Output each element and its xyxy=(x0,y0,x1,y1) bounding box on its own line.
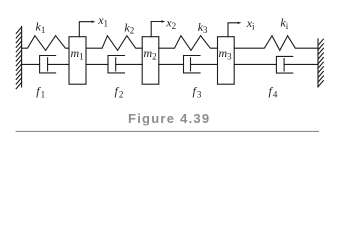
damper f3 xyxy=(159,56,218,73)
arrowhead xi xyxy=(238,22,242,24)
mass m3 xyxy=(218,37,235,84)
arrowhead x1 xyxy=(92,21,96,23)
damper f2 xyxy=(86,56,142,73)
left wall xyxy=(16,27,21,89)
svg-text:k1: k1 xyxy=(36,20,46,36)
svg-text:ki: ki xyxy=(280,16,288,32)
svg-text:k3: k3 xyxy=(198,20,208,35)
mass m2 xyxy=(142,37,159,84)
damper f1 xyxy=(22,56,69,73)
svg-text:f2: f2 xyxy=(115,84,124,100)
right wall xyxy=(318,39,323,87)
svg-text:x1: x1 xyxy=(97,13,108,29)
arrowhead x2 xyxy=(161,20,165,22)
svg-text:f4: f4 xyxy=(269,84,278,100)
spring ki xyxy=(234,36,318,51)
svg-text:f3: f3 xyxy=(193,84,202,100)
spring k2 xyxy=(86,36,142,51)
spring k1 xyxy=(22,36,69,51)
svg-text:k2: k2 xyxy=(124,21,134,36)
damper f4 xyxy=(234,56,318,73)
mass m1 xyxy=(69,37,86,84)
caption rule xyxy=(16,130,320,132)
coordinate leader x1 xyxy=(79,22,93,37)
svg-text:xi: xi xyxy=(246,16,255,32)
coordinate leader x2 xyxy=(151,22,163,37)
spring k3 xyxy=(159,36,218,51)
svg-text:Figure 4.39: Figure 4.39 xyxy=(128,111,210,126)
svg-text:x2: x2 xyxy=(165,16,176,32)
svg-text:f1: f1 xyxy=(36,84,45,100)
coordinate leader xi xyxy=(228,23,239,37)
